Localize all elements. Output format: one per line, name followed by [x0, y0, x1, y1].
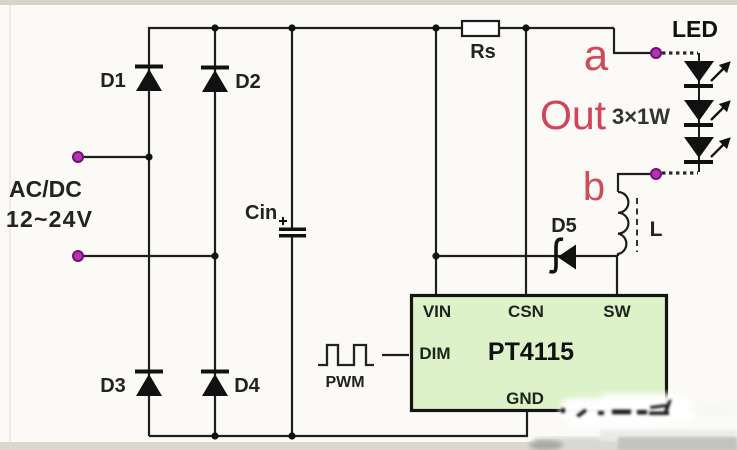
svg-text:D4: D4 [234, 375, 260, 397]
watermark gray bands bottom right [529, 430, 737, 450]
svg-text:LED: LED [672, 16, 718, 42]
wire dashed link node a to LED string [662, 51, 698, 54]
wire top rail and left D1/D3 branch [149, 28, 614, 436]
terminal lower AC input [73, 251, 83, 261]
svg-text:L: L [650, 218, 663, 241]
svg-text:D1: D1 [100, 70, 126, 92]
svg-text:VIN: VIN [423, 302, 451, 321]
wire LED string column [698, 53, 700, 172]
diode D1 [135, 65, 163, 92]
inductor L dashed core [636, 198, 638, 252]
capacitor Cin [279, 228, 306, 238]
watermark text strokes [561, 399, 672, 418]
LED 3 [684, 137, 714, 164]
node b terminal [651, 169, 661, 179]
wire upper AC input [78, 156, 149, 158]
schottky diode D5 [550, 239, 577, 272]
svg-text:D2: D2 [235, 71, 261, 93]
LED 1 emission arrow [711, 63, 729, 81]
svg-text:AC/DC: AC/DC [9, 176, 82, 202]
wire node b branch [618, 174, 651, 192]
wire Cin branch lower [291, 237, 293, 436]
PWM source square wave [318, 345, 374, 365]
wire dashed link node b to LED string [662, 171, 698, 174]
svg-text:D3: D3 [100, 375, 126, 397]
wire CSN column [525, 28, 527, 295]
LED 2 [684, 100, 714, 127]
terminal upper AC input [73, 152, 83, 162]
diode D3 [135, 370, 163, 397]
wire DIM pin [382, 354, 409, 356]
wire lower AC input [78, 255, 215, 257]
node junction dots [145, 24, 529, 439]
svg-text:SW: SW [603, 302, 631, 321]
svg-text:a: a [584, 31, 609, 80]
inductor L coil [618, 192, 628, 256]
polarity plus of Cin [279, 217, 287, 225]
diode D4 [201, 370, 229, 397]
svg-text:PT4115: PT4115 [488, 338, 574, 366]
svg-text:Cin: Cin [245, 202, 277, 224]
wire Cin branch upper [291, 28, 293, 228]
svg-text:3×1W: 3×1W [612, 104, 670, 129]
node a terminal [651, 48, 661, 58]
wire bottom rail and GND pin [149, 412, 527, 436]
svg-text:Out: Out [540, 92, 607, 138]
wire second column D2/D4 branch [214, 28, 216, 436]
svg-text:12~24V: 12~24V [6, 206, 93, 232]
label AC/DC 12~24V [6, 176, 93, 232]
LED 1 [684, 61, 714, 88]
wire D5 freewheeling row [436, 255, 617, 257]
wire SW column [616, 256, 618, 295]
svg-text:Rs: Rs [470, 41, 496, 63]
wire VIN column [435, 28, 437, 295]
svg-text:PWM: PWM [325, 374, 364, 391]
svg-text:D5: D5 [551, 215, 577, 237]
svg-text:GND: GND [506, 389, 544, 408]
svg-text:DIM: DIM [419, 344, 450, 363]
LED 3 emission arrow [711, 139, 729, 157]
resistor Rs [462, 21, 499, 36]
IC U1 PT4115 body [412, 296, 667, 411]
wire node a branch [614, 28, 651, 53]
svg-text:b: b [583, 165, 605, 209]
diode D2 [201, 66, 229, 93]
svg-text:CSN: CSN [508, 302, 544, 321]
watermark white smudge [560, 393, 737, 428]
LED 2 emission arrow [711, 102, 729, 120]
